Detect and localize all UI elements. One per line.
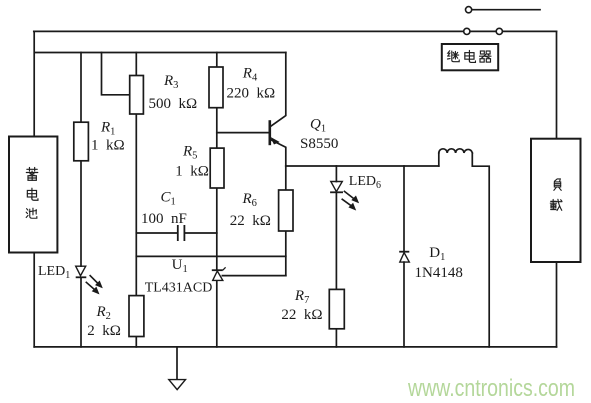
- svg-text:TL431ACD: TL431ACD: [145, 281, 213, 296]
- svg-text:100 nF: 100 nF: [141, 211, 187, 227]
- svg-text:1 kΩ: 1 kΩ: [175, 164, 209, 180]
- svg-text:1N4148: 1N4148: [415, 265, 463, 281]
- svg-text:22 kΩ: 22 kΩ: [281, 307, 322, 323]
- svg-text:2 kΩ: 2 kΩ: [87, 323, 121, 339]
- svg-text:22 kΩ: 22 kΩ: [230, 213, 271, 229]
- svg-text:500 kΩ: 500 kΩ: [149, 96, 198, 112]
- svg-text:1 kΩ: 1 kΩ: [91, 138, 125, 154]
- svg-text:S8550: S8550: [300, 136, 338, 152]
- svg-text:www.cntronics.com: www.cntronics.com: [407, 375, 575, 402]
- svg-text:220 kΩ: 220 kΩ: [227, 85, 276, 101]
